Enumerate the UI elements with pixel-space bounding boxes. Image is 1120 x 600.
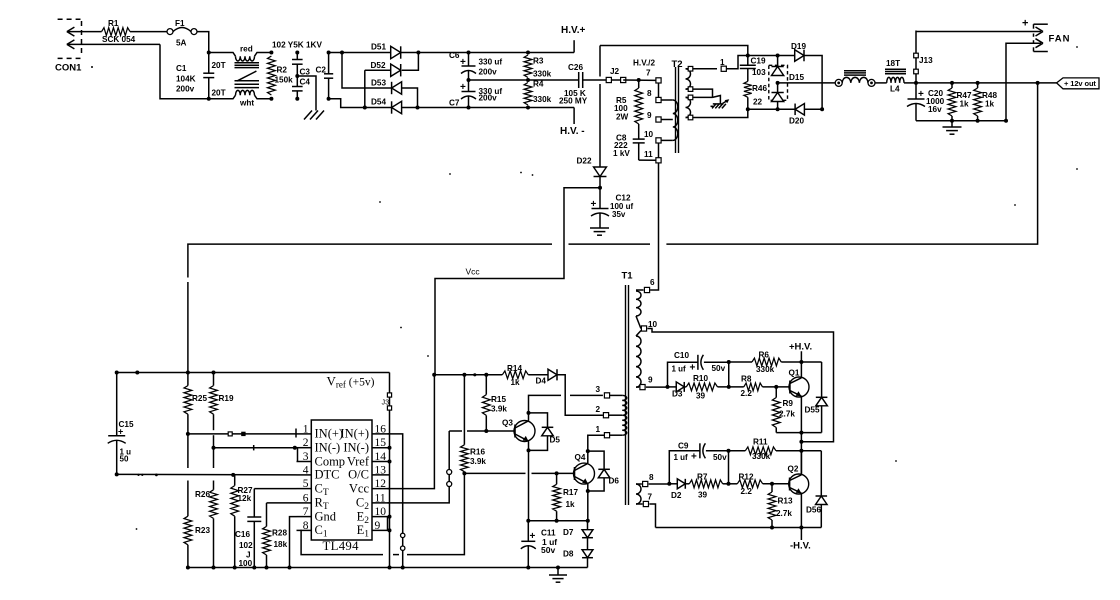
wire node to choke bottom xyxy=(209,95,236,99)
wire CT row xyxy=(254,488,296,490)
node ground rail R23 xyxy=(186,566,190,570)
svg-text:12: 12 xyxy=(375,478,387,490)
svg-text:2: 2 xyxy=(303,437,309,449)
T1 pin 3 pad xyxy=(604,393,609,398)
svg-text:2.2: 2.2 xyxy=(741,487,753,496)
arrowhead FAN minus xyxy=(1036,39,1044,44)
node D20 right xyxy=(820,107,824,111)
node R11 right xyxy=(799,449,803,453)
svg-text:2W: 2W xyxy=(616,113,629,122)
connector CON1 (dashed outline) xyxy=(58,18,81,20)
svg-text:7: 7 xyxy=(648,493,653,502)
stray speck g xyxy=(1076,168,1078,170)
svg-text:R7: R7 xyxy=(697,473,708,482)
svg-text:12k: 12k xyxy=(238,494,252,503)
wire T2 sec mid tap b xyxy=(693,96,713,98)
svg-text:16v: 16v xyxy=(928,105,942,114)
diode D53 xyxy=(392,82,402,94)
T1 winding 10-9 xyxy=(636,336,641,387)
svg-text:102: 102 xyxy=(239,541,253,550)
T2 sec pad c xyxy=(688,95,693,100)
wire tap jog to chassis xyxy=(713,96,721,104)
svg-text:20T: 20T xyxy=(212,89,226,98)
capacitor C3 xyxy=(296,53,298,60)
svg-text:10: 10 xyxy=(648,320,658,329)
TL494 pin 16 stub xyxy=(372,433,390,435)
svg-text:1k: 1k xyxy=(511,378,521,387)
svg-text:R9: R9 xyxy=(783,399,794,408)
svg-text:H.V./2: H.V./2 xyxy=(633,59,655,68)
wire D15 center to bead xyxy=(778,82,836,84)
node D15 center xyxy=(776,81,780,85)
wire R8 to Q1 base xyxy=(763,386,790,388)
svg-text:50: 50 xyxy=(120,455,129,464)
svg-text:R17: R17 xyxy=(563,488,578,497)
resistor R10 xyxy=(684,386,686,388)
svg-text:FAN: FAN xyxy=(1049,34,1071,45)
svg-text:C3: C3 xyxy=(300,68,311,77)
T1 pin 1 pad xyxy=(604,433,609,438)
T2 sec pad a xyxy=(688,66,693,71)
wire D52 left stub xyxy=(365,69,391,71)
wire C1 row right xyxy=(407,473,464,554)
wire R11 to Q2 col xyxy=(776,450,801,452)
svg-text:2.7k: 2.7k xyxy=(779,410,795,419)
TL494 pin 8 stub xyxy=(297,529,312,531)
transistor Q1 xyxy=(789,377,809,397)
wire winding link to pin10 xyxy=(636,316,641,329)
wire DTC row xyxy=(117,473,297,476)
node R3 top xyxy=(526,51,530,55)
svg-text:IN(+): IN(+) xyxy=(340,427,369,441)
node R25 pin1 xyxy=(186,432,190,436)
svg-text:R15: R15 xyxy=(491,395,506,404)
svg-text:13: 13 xyxy=(375,464,387,476)
svg-text:50v: 50v xyxy=(713,453,727,462)
diode D54 xyxy=(392,101,402,113)
svg-text:15: 15 xyxy=(375,437,387,449)
node ground rail R27 xyxy=(233,566,237,570)
resistor R2 xyxy=(268,56,276,95)
diode D51 xyxy=(391,46,401,58)
resistor R19 xyxy=(213,373,215,386)
wire AC1 to bridge xyxy=(329,52,391,54)
svg-text:Vref (+5v): Vref (+5v) xyxy=(327,374,375,390)
pin16 riser xyxy=(388,434,403,568)
stray speck a xyxy=(449,173,451,175)
capacitor C10 branch xyxy=(668,362,698,387)
svg-text:H.V.+: H.V.+ xyxy=(561,25,586,36)
svg-text:18k: 18k xyxy=(274,540,288,549)
svg-text:10: 10 xyxy=(644,130,654,139)
wire Q1 emitter xyxy=(800,396,802,432)
pads on pin11 riser xyxy=(447,470,452,475)
node ground rail gnd xyxy=(556,566,560,570)
resistor R26 xyxy=(213,448,215,468)
wire C1 row mid xyxy=(393,554,399,556)
wire sec bot b xyxy=(686,117,689,119)
wire drive tap2 xyxy=(609,414,622,416)
wire ground rail xyxy=(188,567,588,569)
diode D5 xyxy=(542,427,554,436)
wire R10 to R8 xyxy=(718,386,744,388)
IC TL494 body xyxy=(311,420,372,540)
wire Q3 base row left xyxy=(449,430,462,432)
svg-text:3: 3 xyxy=(596,385,601,394)
T2 pin 1 pad xyxy=(721,66,726,71)
wire D55 top xyxy=(801,361,821,363)
svg-text:red: red xyxy=(240,45,253,54)
node R4 bottom xyxy=(526,106,530,110)
wire pin10 link to winding2 xyxy=(636,331,641,337)
svg-text:3: 3 xyxy=(303,451,309,463)
capacitor C15 (electrolytic) xyxy=(116,373,118,436)
diode D19 xyxy=(795,50,804,62)
T1 winding 6-10 xyxy=(636,291,641,316)
choke winding top 20T xyxy=(236,56,255,61)
node R46 bottom xyxy=(746,107,750,111)
svg-text:R28: R28 xyxy=(272,529,287,538)
wire T1 pin7 out xyxy=(649,504,655,528)
wire T1 pin8 row xyxy=(649,483,670,485)
svg-text:D22: D22 xyxy=(577,156,592,165)
svg-text:2.2: 2.2 xyxy=(741,389,753,398)
wire Q2 emitter xyxy=(800,493,802,527)
TL494 pin 15 stub xyxy=(372,447,390,449)
svg-text:+: + xyxy=(118,427,123,437)
svg-text:39: 39 xyxy=(696,392,706,401)
wire D53 to bottom rail xyxy=(402,88,418,108)
wire D54 out along bottom rail xyxy=(402,107,574,109)
node rail stray xyxy=(135,371,139,375)
ground for output filter xyxy=(951,121,953,127)
pad on pin2 row xyxy=(253,445,255,450)
wire pin8 stub xyxy=(661,99,673,101)
diode D55 xyxy=(821,362,823,397)
capacitor C7 (electrolytic) xyxy=(468,80,470,92)
svg-text:H.V. -: H.V. - xyxy=(560,126,585,137)
resistor R9 xyxy=(775,387,777,398)
stray speck f xyxy=(427,355,429,357)
wire D52 to top rail xyxy=(402,53,419,71)
node emitter row1 xyxy=(799,431,803,435)
wire node to choke top xyxy=(209,53,236,57)
transformer T2 core xyxy=(675,67,677,153)
wire Q4 base row left xyxy=(464,472,525,474)
svg-text:Q1: Q1 xyxy=(789,369,800,378)
wire T2 sec mid tap a xyxy=(693,89,713,97)
svg-text:+: + xyxy=(460,82,466,93)
resistor R11 xyxy=(745,447,776,455)
node AC1 junction xyxy=(340,51,344,55)
T2 pin 7 pad xyxy=(656,78,661,83)
svg-text:D2: D2 xyxy=(671,491,682,500)
node R8 left xyxy=(727,385,731,389)
wire R12 to Q2 base xyxy=(763,483,790,485)
node C15 bottom xyxy=(115,472,119,476)
node D15 top row xyxy=(776,54,780,58)
svg-text:-H.V.: -H.V. xyxy=(790,541,811,552)
svg-text:Q4: Q4 xyxy=(575,453,586,462)
svg-text:J13: J13 xyxy=(919,56,933,65)
wire pin8 C1 down xyxy=(301,530,383,554)
mini mark b DTC row xyxy=(141,474,143,476)
svg-text:200v: 200v xyxy=(479,94,498,103)
svg-text:Vcc: Vcc xyxy=(466,267,481,277)
wire Q3 collector up xyxy=(529,395,562,420)
TL494 pin 13 stub xyxy=(372,474,390,476)
node R27 top xyxy=(231,473,235,477)
svg-text:C7: C7 xyxy=(449,99,460,108)
svg-text:6: 6 xyxy=(303,492,309,504)
diode D15 upper xyxy=(777,56,779,67)
svg-text:+: + xyxy=(460,57,466,68)
svg-text:R2: R2 xyxy=(277,66,288,75)
svg-text:DTC: DTC xyxy=(315,468,340,482)
svg-text:D55: D55 xyxy=(805,406,820,415)
diode D2 xyxy=(669,483,677,485)
svg-text:CON1: CON1 xyxy=(55,63,82,74)
node R2 bottom xyxy=(269,97,273,101)
wire Q4 base row right xyxy=(532,472,575,474)
node C6 top xyxy=(467,51,471,55)
pad on pin1 row xyxy=(228,432,232,436)
svg-text:R46: R46 xyxy=(752,84,767,93)
T2 secondary top winding xyxy=(686,69,691,89)
svg-text:D56: D56 xyxy=(806,506,821,515)
svg-text:D7: D7 xyxy=(563,528,574,537)
capacitor C6 (electrolytic) xyxy=(468,53,470,67)
capacitor C26 xyxy=(578,72,580,88)
svg-text:1k: 1k xyxy=(960,100,970,109)
stray speck i xyxy=(136,528,138,530)
transistor Q3 xyxy=(514,421,535,442)
stray speck e xyxy=(400,327,402,329)
resistor R14 xyxy=(502,371,528,379)
wire Q2 collector xyxy=(800,451,802,475)
wire D5 bottom xyxy=(529,436,548,451)
node pin9 C10 xyxy=(666,385,670,389)
T1 pin 2 pad xyxy=(603,413,608,418)
wire sec top b xyxy=(686,88,689,90)
svg-text:+: + xyxy=(918,89,924,100)
node emitter row C11 xyxy=(526,519,530,523)
wire R11 row xyxy=(729,450,746,452)
svg-text:Q3: Q3 xyxy=(502,419,513,428)
wire AC1 down to D53 row xyxy=(342,53,392,89)
svg-text:1k: 1k xyxy=(566,500,576,509)
diode D8 xyxy=(587,538,589,550)
node R15 top xyxy=(484,373,488,377)
capacitor C16 xyxy=(253,489,255,517)
svg-text:C4: C4 xyxy=(300,78,311,87)
wire mid caps to ground xyxy=(297,76,316,111)
T1 winding 8-7 xyxy=(636,484,641,504)
diode D20 xyxy=(795,104,804,116)
tick end pin1 row xyxy=(295,429,297,438)
ground main xyxy=(557,568,559,576)
node C9/R11 xyxy=(727,449,731,453)
TL494 pin 10 stub xyxy=(372,516,390,518)
wire sec bot a xyxy=(686,96,689,98)
node D52 cathode to rail xyxy=(416,51,420,55)
node R3/R4 mid xyxy=(526,78,530,82)
TL494 pin 7 stub xyxy=(297,516,312,518)
node R15 bottom xyxy=(484,429,488,433)
svg-text:50v: 50v xyxy=(541,545,555,555)
svg-text:3.9k: 3.9k xyxy=(470,457,486,466)
wire T1 pin1 to Q4 collector xyxy=(588,435,604,463)
node C4 bottom xyxy=(295,97,299,101)
svg-text:11: 11 xyxy=(375,492,386,504)
wire winding top to pin6 xyxy=(636,289,644,291)
wire winding3 to pin8 xyxy=(636,483,642,485)
wire J13 to FAN plus xyxy=(916,31,1041,33)
svg-text:22: 22 xyxy=(753,98,763,107)
svg-text:C1: C1 xyxy=(176,64,187,73)
wire D19 to right leg xyxy=(804,56,822,110)
resistor R46 xyxy=(744,81,752,97)
pads on pin16 riser xyxy=(401,533,405,537)
node ground rail riser xyxy=(388,566,392,570)
wire link pin7-pin8 xyxy=(658,83,660,97)
wire emitter to R11 row xyxy=(800,433,802,474)
wire C10/R8 link xyxy=(728,362,730,387)
wire pin2 row xyxy=(214,447,297,449)
T2 pin 9 pad xyxy=(656,117,661,122)
svg-text:11: 11 xyxy=(644,150,653,159)
svg-text:SCK 054: SCK 054 xyxy=(102,35,136,44)
node R17 top xyxy=(555,471,559,475)
resistor R27 xyxy=(234,475,236,486)
resistor R7 xyxy=(685,483,689,485)
T1 drive winding xyxy=(622,395,627,435)
T2 sec pad d xyxy=(688,115,693,120)
stray speck d xyxy=(379,201,381,203)
node Q2 emitter xyxy=(799,526,803,530)
wire link pin10-pin11 xyxy=(658,143,660,158)
choke winding bottom 20T xyxy=(236,90,255,95)
node C3/C4 mid xyxy=(295,74,299,78)
node C7 bottom xyxy=(467,106,471,110)
node R13 bottom xyxy=(770,526,774,530)
wire C26 to J2 xyxy=(583,79,609,81)
svg-text:102 Y5K 1KV: 102 Y5K 1KV xyxy=(272,41,322,50)
TL494 pin 1 stub xyxy=(297,433,312,435)
svg-text:C2: C2 xyxy=(316,66,327,75)
wire T2-11 to T1-6 riser xyxy=(650,163,658,290)
T1 pin 6 pad xyxy=(644,287,649,292)
svg-text:R25: R25 xyxy=(192,394,207,403)
assembly D15 dashed box xyxy=(769,65,788,100)
stray speck c xyxy=(532,174,534,176)
stray speck right of FAN xyxy=(1076,46,1078,48)
TL494 pin 4 stub xyxy=(297,474,312,476)
resistor R13 xyxy=(771,484,773,492)
svg-text:9: 9 xyxy=(648,376,653,385)
T2 pin 11 pad xyxy=(656,158,661,163)
svg-text:R6: R6 xyxy=(759,351,770,360)
node C1 top xyxy=(207,51,211,55)
node pin10 row xyxy=(799,440,803,444)
resistor R12 xyxy=(737,480,762,488)
diode D22 xyxy=(599,46,601,77)
svg-text:C26: C26 xyxy=(568,63,583,72)
svg-text:330k: 330k xyxy=(533,95,552,104)
node D15 bottom row xyxy=(776,107,780,111)
node C2 top xyxy=(327,51,331,55)
svg-text:330k: 330k xyxy=(756,365,775,374)
capacitor C1 xyxy=(208,53,210,74)
wire J2 to T2 pin7 xyxy=(623,79,656,81)
svg-text:D19: D19 xyxy=(791,42,806,51)
svg-text:103: 103 xyxy=(752,68,766,77)
svg-text:O/C: O/C xyxy=(348,468,369,482)
wire R46 to bottom row xyxy=(747,97,749,109)
svg-text:R26: R26 xyxy=(195,490,210,499)
svg-text:2.7k: 2.7k xyxy=(776,509,792,518)
node R47 top xyxy=(950,81,954,85)
svg-text:Vcc: Vcc xyxy=(349,481,370,495)
capacitor C4 xyxy=(296,76,298,87)
wire +12v feed riser lower xyxy=(187,282,189,373)
capacitor C20 (electrolytic) xyxy=(915,83,917,99)
svg-text:D6: D6 xyxy=(609,477,620,486)
diode D15 lower xyxy=(777,84,779,93)
svg-text:IN(+): IN(+) xyxy=(315,427,344,441)
svg-text:D3: D3 xyxy=(672,390,683,399)
svg-text:R10: R10 xyxy=(693,374,708,383)
diode D56 xyxy=(820,451,822,496)
jumper J13 xyxy=(915,31,917,83)
svg-text:1k: 1k xyxy=(985,100,995,109)
wire RT row xyxy=(267,502,297,504)
node +12v tap xyxy=(1036,81,1040,85)
node D52 anode junction xyxy=(363,106,367,110)
jumper J2 pads xyxy=(609,79,623,81)
TL494 pin 2 stub xyxy=(297,447,312,449)
svg-text:C9: C9 xyxy=(678,442,689,451)
node ground rail R28 xyxy=(265,566,269,570)
svg-text:D15: D15 xyxy=(789,73,804,82)
capacitor C19 xyxy=(747,56,749,66)
svg-text:330k: 330k xyxy=(533,70,552,79)
svg-text:Vref: Vref xyxy=(347,454,370,468)
TL494 pin 11 stub xyxy=(372,502,390,504)
wire C9/R7 link xyxy=(728,451,730,484)
node Q3 collector xyxy=(527,411,531,415)
wire Vcc run xyxy=(435,188,600,375)
wire sec top a xyxy=(686,68,689,70)
resistor R48 xyxy=(977,83,979,88)
node D22/C12 xyxy=(598,186,602,190)
diode D7 xyxy=(587,521,589,530)
svg-text:330 uf: 330 uf xyxy=(479,58,503,67)
node riser pin9 xyxy=(388,528,392,532)
TL494 pin 14 stub xyxy=(372,461,390,463)
svg-text:IN(-): IN(-) xyxy=(343,441,369,455)
svg-text:50v: 50v xyxy=(712,364,726,373)
svg-text:+: + xyxy=(691,452,697,463)
TL494 pin 9 stub xyxy=(372,529,390,531)
svg-text:D5: D5 xyxy=(550,436,561,445)
node R16 top xyxy=(462,373,466,377)
node Q4 collector D6 xyxy=(586,449,590,453)
svg-text:5: 5 xyxy=(303,478,309,490)
wire ground rail under C20 xyxy=(916,120,1006,122)
choke core xyxy=(235,62,260,64)
svg-text:TL494: TL494 xyxy=(323,539,360,553)
